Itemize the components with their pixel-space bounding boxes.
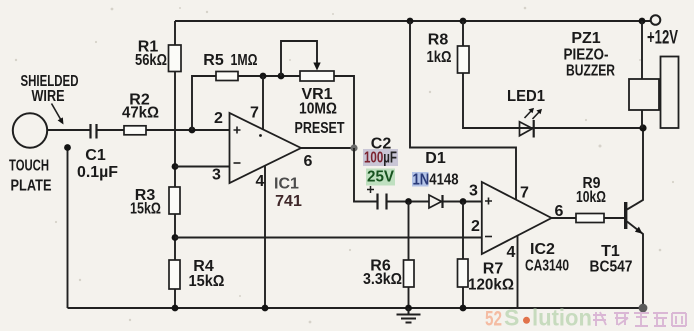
svg-text:6: 6 [555,203,564,220]
svg-text:1MΩ: 1MΩ [231,52,258,69]
wire IC2 pin2 long run [175,237,482,239]
label 100uF highlighted [363,149,398,166]
svg-text:PLATE: PLATE [11,178,52,195]
transistor T1 base bar [624,202,627,229]
wire IC1 pin7 [262,76,264,129]
svg-text:IC2: IC2 [530,241,555,258]
terminal +12V [651,15,661,25]
wire output down to C2 [354,148,377,202]
wire VR1 right to output node [334,76,354,148]
wire IC2 pin7 route [410,21,516,199]
svg-text:4: 4 [256,173,265,190]
node C2/R6/D1 [405,198,412,205]
svg-text:741: 741 [275,193,302,210]
svg-text:R5: R5 [203,52,224,69]
svg-text:C1: C1 [85,147,106,164]
wire R7 drop [462,202,464,309]
svg-text:1N4148: 1N4148 [413,172,459,189]
watermark chinese glyph strokes [593,312,686,326]
wire VR1 wiper loop [281,41,317,76]
wire R2 to IC1 pin2 [146,129,230,131]
node R3/R4 junction [172,234,179,241]
svg-text:47kΩ: 47kΩ [122,105,159,122]
svg-text:WIRE: WIRE [32,88,65,105]
svg-text:6: 6 [304,153,313,170]
resistor R5 [216,72,238,81]
capacitor C2 plus sign [367,186,374,193]
svg-text:lution: lution [532,305,592,331]
IC2 minus sign [485,236,492,238]
svg-text:D1: D1 [425,150,446,167]
svg-text:PIEZO-: PIEZO- [564,47,609,64]
wire bottom ground rail [68,307,644,309]
watermark 52Solution [485,305,592,331]
svg-text:PRESET: PRESET [295,120,345,137]
arrow wire pointer [52,104,62,121]
resistor R6 [404,260,415,287]
T1 collector [627,128,643,210]
node R7 bottom [460,305,467,312]
resistor R4 [169,260,180,289]
node output (gray) [350,144,357,151]
IC1 minus sign [234,162,241,164]
svg-text:LED1: LED1 [507,88,545,105]
resistor R8 [458,46,470,73]
svg-text:R8: R8 [428,32,449,49]
wire R8 / LED run [463,21,643,128]
wire pin3 stub [175,166,230,168]
wire IC1 output [301,147,354,149]
IC2 plus sign [485,198,492,205]
node pin3 junction [172,163,179,170]
resistor R2 [124,126,146,135]
svg-text:4: 4 [507,244,516,261]
svg-text:1kΩ: 1kΩ [427,49,452,66]
capacitor C2 [378,194,387,210]
touch plate [13,113,47,147]
wire IC1 pin4 [264,166,266,308]
wire IC2 output to R9 [552,217,577,219]
svg-text:100µF: 100µF [364,150,397,167]
svg-text:2: 2 [471,218,480,235]
svg-text:25V: 25V [367,169,394,186]
svg-text:15kΩ: 15kΩ [189,273,225,290]
svg-text:120kΩ: 120kΩ [468,277,514,294]
wire shield drop [67,149,69,308]
node top rail / R8 [460,18,467,25]
capacitor C1 [91,124,97,139]
IC1 plus sign [234,127,241,134]
node wiper loop [278,73,285,80]
wire C2 to node [388,201,430,203]
op-amp IC1 [230,113,302,183]
LED LED1 [520,122,533,136]
resistor R3 [169,187,180,214]
wire piezo branch [641,21,643,128]
svg-text:S: S [504,305,519,331]
svg-text:CA3140: CA3140 [525,258,569,275]
ground [397,308,421,323]
VR1 wiper arrowhead [313,63,320,71]
wire R1/R3/R4 vertical chain [174,21,176,308]
IC1 inner dot [259,134,262,137]
wire C1 to R2 [98,129,125,131]
svg-text:10kΩ: 10kΩ [576,189,606,206]
label 1N4148 highlighted [412,172,429,187]
svg-text:15kΩ: 15kΩ [130,201,161,218]
svg-text:56kΩ: 56kΩ [135,52,167,69]
node top rail / IC2 pin7 [407,18,414,25]
svg-text:0.1µF: 0.1µF [77,164,118,181]
node LED/piezo/collector [639,124,646,131]
T1 emitter arrowhead [635,227,643,234]
T1 emitter [627,222,643,309]
LED1 emission arrows [525,110,541,119]
node D1/R7/pin3 [460,198,467,205]
svg-text:PZ1: PZ1 [571,30,600,47]
node emitter / rail (gray) [639,304,648,313]
node R4 bottom [172,305,179,312]
node R5 right / pin7 [260,73,267,80]
svg-text:IC1: IC1 [274,176,299,193]
resistor R9 [576,214,604,223]
svg-text:7: 7 [250,105,259,122]
wire R5 feedback loop [192,76,300,130]
svg-text:BC547: BC547 [590,259,633,276]
node shield connection [64,144,71,151]
svg-text:7: 7 [520,185,529,202]
wire D1 to pin3 node [443,201,482,203]
svg-text:10MΩ: 10MΩ [299,101,337,118]
svg-text:+12V: +12V [647,28,678,49]
label 25V highlighted [366,169,395,186]
resistor R7 [458,259,469,287]
svg-text:R7: R7 [483,261,504,278]
node top rail piezo [639,18,646,25]
svg-text:2: 2 [214,110,223,127]
svg-text:3.3kΩ: 3.3kΩ [363,271,402,288]
wire R9 to T1 base [604,217,625,219]
piezo-buzzer PZ1 [629,79,659,110]
wire top +12V rail [175,20,651,22]
svg-text:T1: T1 [601,243,620,260]
svg-text:BUZZER: BUZZER [566,63,615,80]
svg-text:52: 52 [485,308,502,331]
diode D1 [429,195,442,208]
potentiometer VR1 [300,71,334,81]
op-amp IC2 [482,182,552,254]
node IC1 pin4 bottom [262,305,269,312]
wire touch plate to C1 [47,129,89,131]
node R5/pin2 junction [189,127,196,134]
wire R6 drop [408,202,410,309]
resistor R1 [169,45,182,72]
svg-text:3: 3 [469,183,478,200]
node R6 bottom / ground [405,305,412,312]
svg-text:TOUCH: TOUCH [9,158,49,175]
wire IC2 pin4 [517,236,519,308]
svg-text:3: 3 [212,167,221,184]
